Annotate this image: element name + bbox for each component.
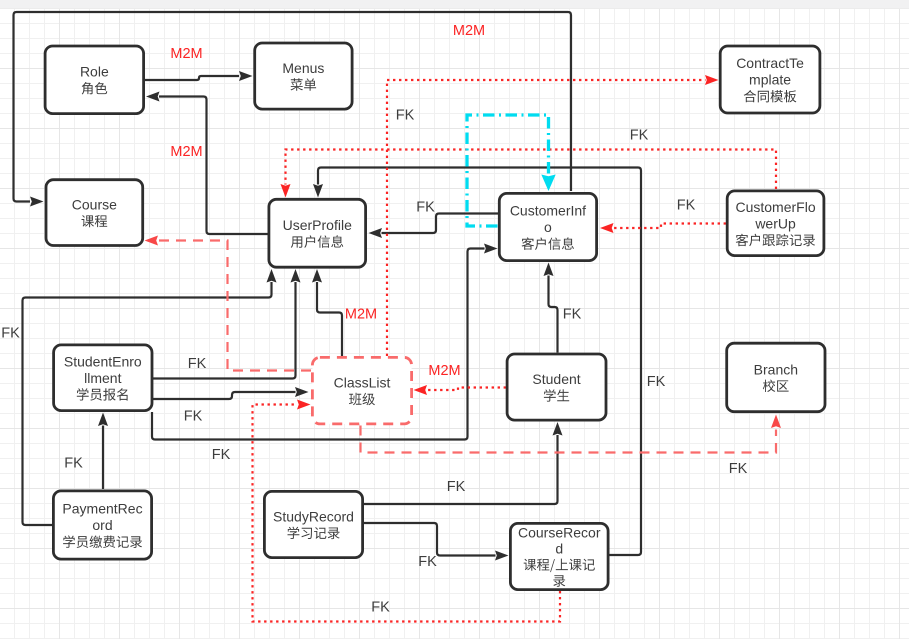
- svg-text:FK: FK: [212, 447, 231, 463]
- entity Course: [46, 180, 143, 246]
- entity CourseRecord: [510, 523, 608, 589]
- label FK CourseRecord-UserProfile: [647, 374, 666, 390]
- connector StudyRecord-right to Student-bottom (FK): [364, 422, 563, 504]
- svg-text:FK: FK: [677, 198, 696, 214]
- label FK CustomerFlowerUp-CustomerInfo: [677, 198, 696, 214]
- connector Student-top to CustomerInfo-bottom (FK): [544, 263, 558, 353]
- entity Student: [507, 354, 606, 420]
- svg-text:CustomerInf: CustomerInf: [510, 203, 586, 219]
- connector ClassList-bottom to Branch-bottom (red dashed FK): [361, 415, 782, 453]
- label M2M ClassList-UserProfile: [345, 307, 377, 323]
- label FK CourseRecord-ClassList: [371, 600, 390, 616]
- svg-text:FK: FK: [418, 554, 437, 570]
- svg-text:M2M: M2M: [170, 46, 202, 62]
- svg-text:FK: FK: [447, 479, 466, 495]
- label FK CustomerInfo-UserProfile: [416, 200, 435, 216]
- svg-text:FK: FK: [729, 461, 748, 477]
- entity Menus: [255, 43, 352, 109]
- entity ContractTemplate: [720, 46, 820, 113]
- connector PaymentRecord-left to UserProfile-bottom (FK): [23, 269, 277, 525]
- svg-text:ord: ord: [92, 517, 112, 533]
- svg-text:o: o: [544, 219, 552, 235]
- connector Role-right to Menus-left (M2M): [145, 71, 253, 81]
- connector CourseRecord-bottom to ClassList-left (red dotted FK): [253, 400, 561, 622]
- connector CustomerFlowerUp-left to CustomerInfo-right (red dotted FK): [600, 223, 726, 233]
- connector CourseRecord-right to UserProfile-top: [313, 168, 641, 556]
- connector UserProfile-left to Role-right (M2M): [146, 92, 268, 235]
- label M2M Student-ClassList: [428, 363, 460, 379]
- svg-text:Branch: Branch: [754, 361, 798, 377]
- label M2M Role-Menus: [170, 46, 202, 62]
- label FK StudentEnrollment-ClassList: [184, 409, 203, 425]
- svg-text:M2M: M2M: [453, 23, 485, 39]
- connector StudentEnrollment-bottom to CustomerInfo-left (FK): [152, 244, 498, 440]
- svg-text:UserProfile: UserProfile: [283, 217, 352, 233]
- connector ClassList-left to Course-right (red dashed FK): [145, 236, 312, 371]
- svg-text:FK: FK: [563, 307, 582, 323]
- label FK near cyan corner: [396, 108, 415, 124]
- svg-text:M2M: M2M: [345, 307, 377, 323]
- svg-text:mplate: mplate: [749, 72, 791, 88]
- svg-text:FK: FK: [630, 128, 649, 144]
- connector ClassList-top to UserProfile-bottom (M2M): [312, 269, 342, 356]
- svg-text:M2M: M2M: [170, 144, 202, 160]
- svg-text:FK: FK: [396, 108, 415, 124]
- svg-text:Menus: Menus: [282, 60, 324, 76]
- label FK StudyRecord-CourseRecord: [418, 554, 437, 570]
- canvas top strip: [0, 0, 909, 9]
- svg-text:PaymentRec: PaymentRec: [62, 501, 142, 517]
- entity UserProfile: [269, 199, 366, 267]
- svg-text:StudyRecord: StudyRecord: [273, 508, 354, 524]
- connector StudyRecord-right to CourseRecord-left (FK): [364, 523, 509, 561]
- label FK CustomerFlowerUp-UserProfile: [630, 128, 649, 144]
- svg-text:StudentEnro: StudentEnro: [64, 353, 142, 369]
- connector Student-left to ClassList-right (red dotted M2M): [414, 385, 507, 395]
- entity Branch: [727, 343, 825, 412]
- svg-text:FK: FK: [416, 200, 435, 216]
- entity StudyRecord: [264, 491, 362, 557]
- svg-text:werUp: werUp: [754, 215, 796, 231]
- svg-text:CourseRecor: CourseRecor: [518, 525, 601, 541]
- svg-text:llment: llment: [84, 370, 121, 386]
- connector StudentEnrollment-right to ClassList-left (FK): [153, 387, 309, 399]
- label FK StudentEnrollment-UserProfile: [188, 356, 207, 372]
- entity Role: [45, 46, 144, 114]
- connector CustomerInfo-left to UserProfile-right (FK): [369, 214, 499, 239]
- svg-text:FK: FK: [647, 374, 666, 390]
- svg-text:ContractTe: ContractTe: [736, 55, 804, 71]
- entity StudentEnrollment: [54, 345, 152, 411]
- svg-text:FK: FK: [64, 456, 83, 472]
- connector ClassList-top to ContractTemplate-left (red dotted M2M): [387, 75, 719, 356]
- svg-text:FK: FK: [1, 326, 20, 342]
- svg-text:Course: Course: [72, 197, 117, 213]
- svg-text:ClassList: ClassList: [334, 375, 391, 391]
- svg-text:FK: FK: [371, 600, 390, 616]
- svg-text:M2M: M2M: [428, 363, 460, 379]
- label M2M UserProfile-Role: [170, 144, 202, 160]
- entity CustomerInfo: [499, 193, 596, 260]
- connector CustomerInfo-left to CustomerInfo-top (cyan dash-dot): [467, 115, 556, 226]
- label FK PaymentRecord-UserProfile: [1, 326, 20, 342]
- label FK StudentEnrollment-CustomerInfo: [212, 447, 231, 463]
- label FK Student-CustomerInfo: [563, 307, 582, 323]
- svg-text:d: d: [555, 541, 563, 557]
- svg-text:CustomerFlo: CustomerFlo: [735, 199, 815, 215]
- connector CustomerInfo-top to Course-left: [14, 12, 572, 207]
- label M2M ClassList-ContractTemplate: [453, 23, 485, 39]
- entity PaymentRecord: [53, 491, 151, 559]
- entity CustomerFlowerUp: [727, 191, 824, 256]
- connector CustomerFlowerUp-top to UserProfile-top (red dotted FK): [281, 150, 777, 198]
- label FK PaymentRecord-StudentEnrollment: [64, 456, 83, 472]
- connector PaymentRecord-top to StudentEnrollment-bottom (FK): [98, 413, 108, 490]
- label FK ClassList-Branch: [729, 461, 748, 477]
- svg-text:FK: FK: [184, 409, 203, 425]
- svg-text:FK: FK: [188, 356, 207, 372]
- connector StudentEnrollment-right to UserProfile-bottom (FK): [153, 269, 301, 379]
- svg-text:Student: Student: [532, 371, 580, 387]
- entity ClassList: [312, 357, 411, 424]
- svg-text:Role: Role: [80, 64, 109, 80]
- label FK StudyRecord-Student: [447, 479, 466, 495]
